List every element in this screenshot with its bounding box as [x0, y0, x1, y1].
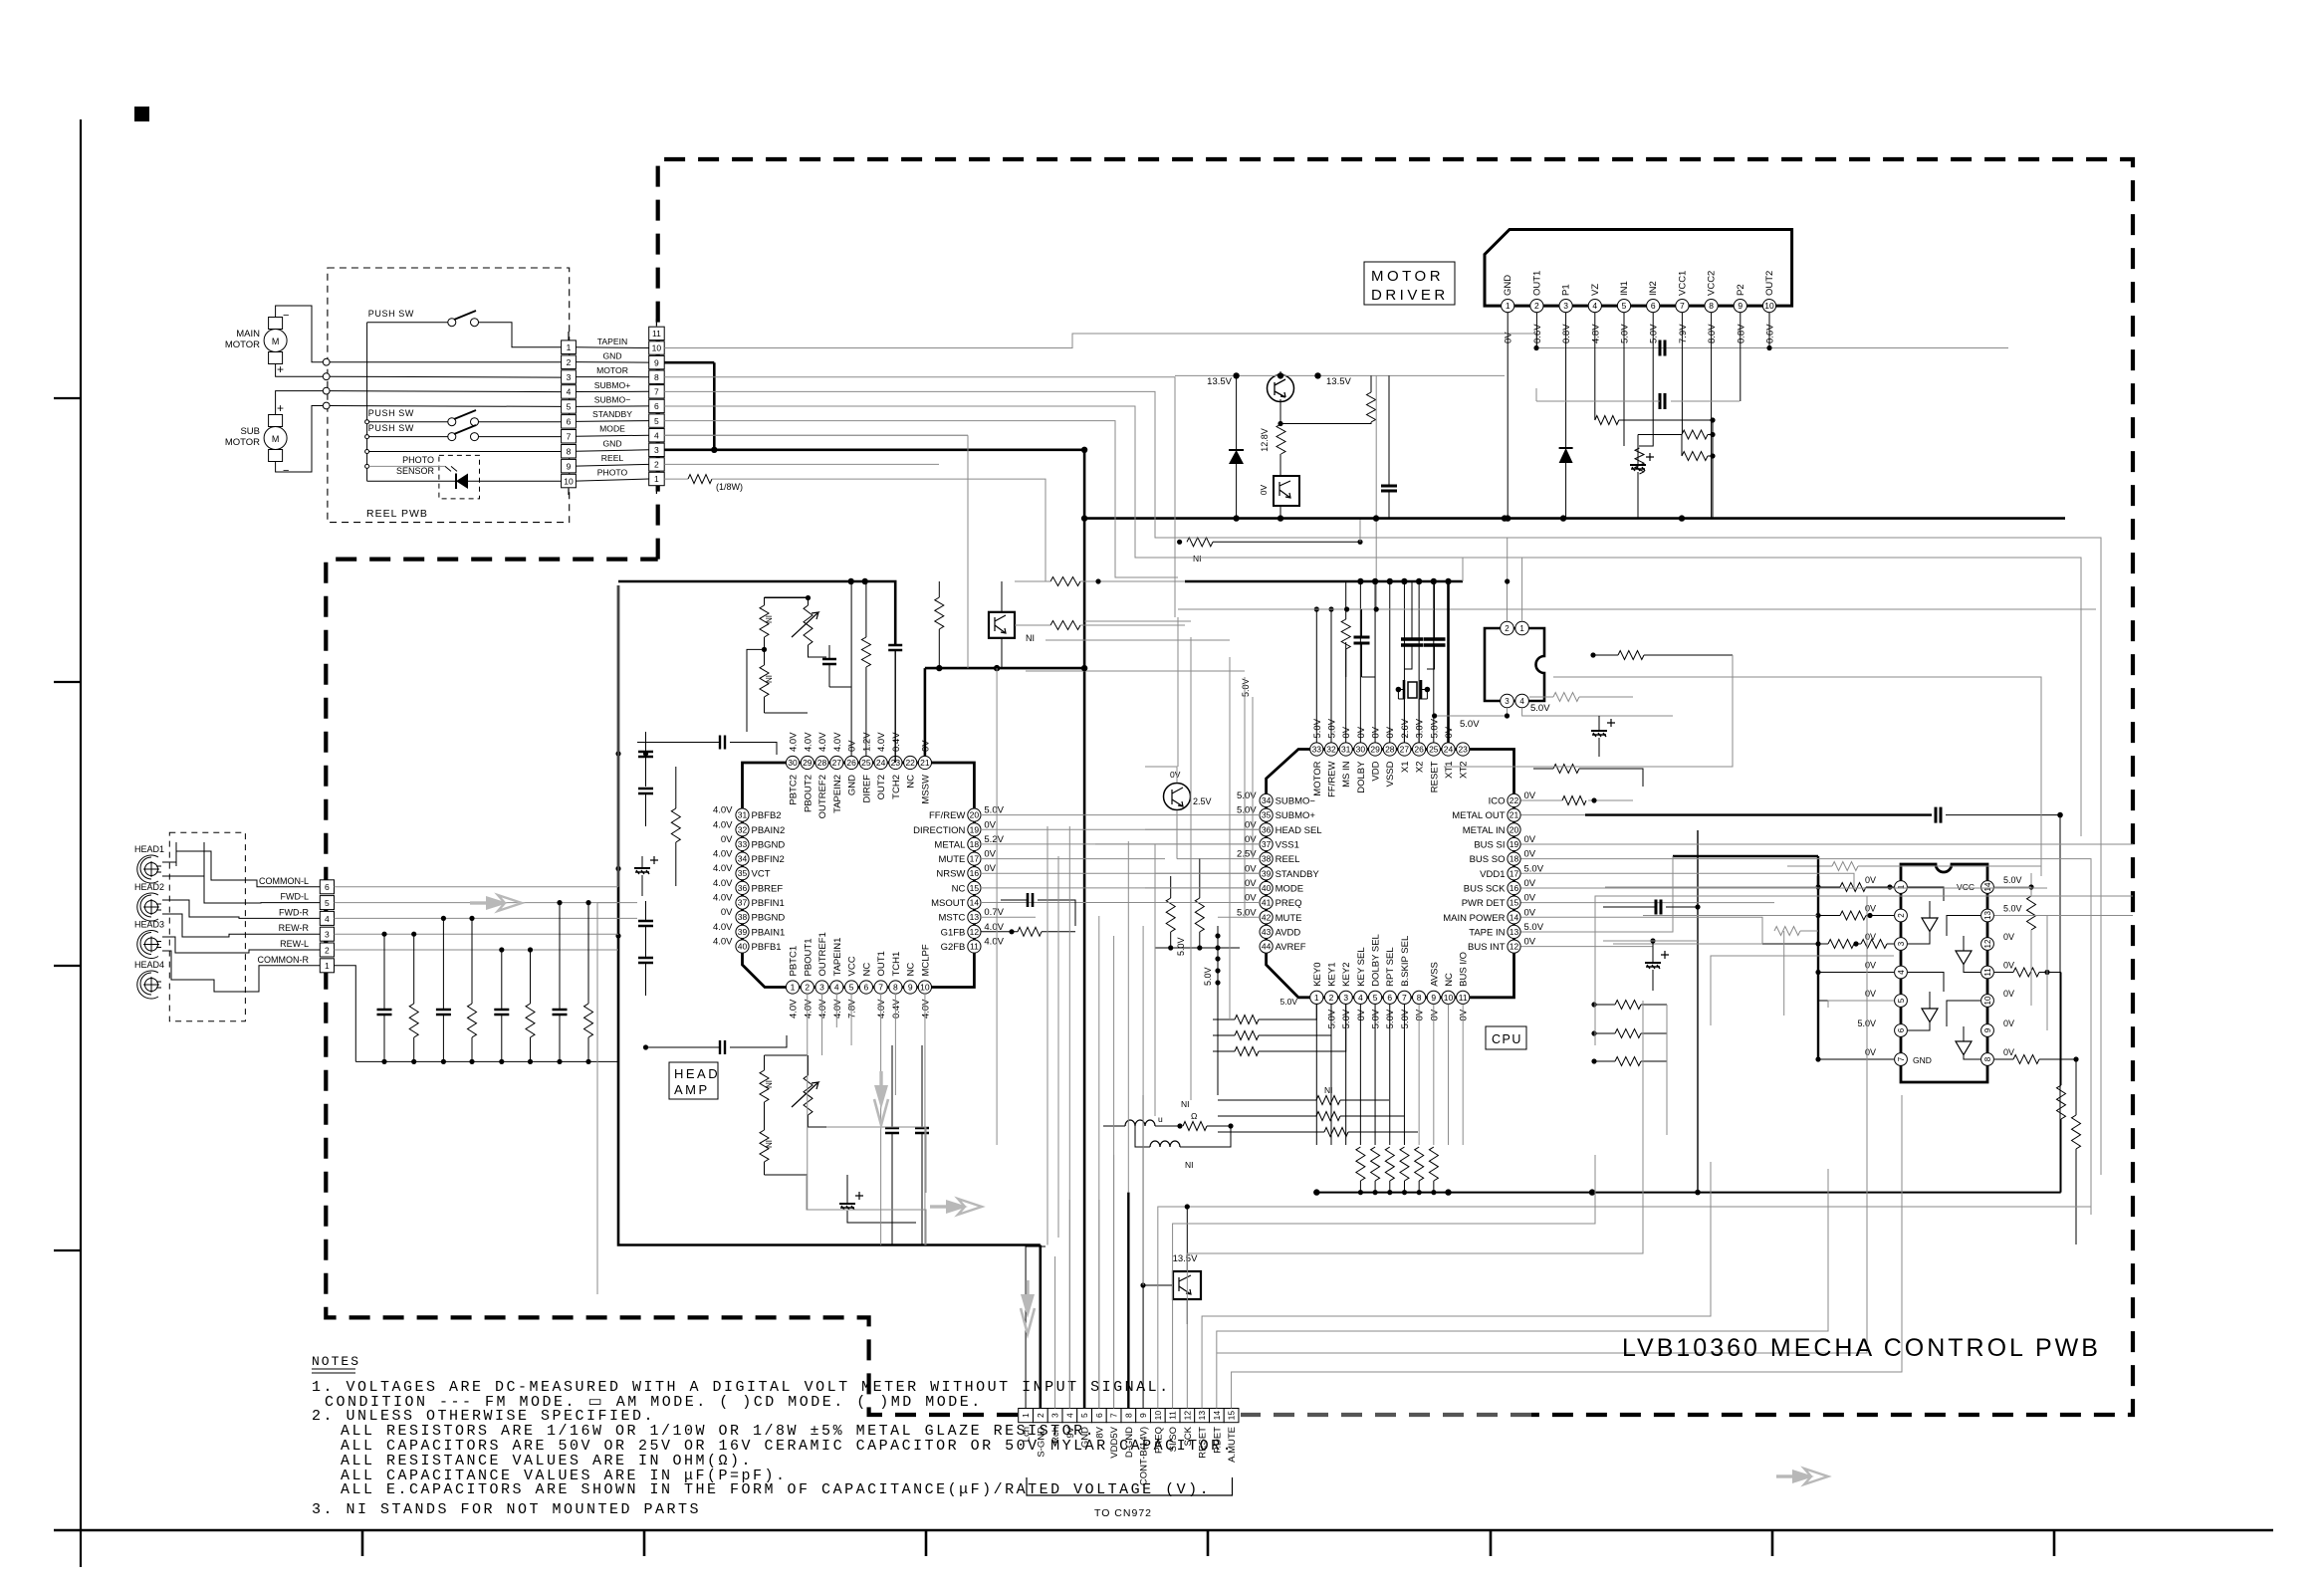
svg-text:0V: 0V	[1170, 770, 1181, 780]
wire head leads	[162, 842, 320, 992]
svg-text:4: 4	[567, 387, 572, 397]
signal flow arrow bottom	[1776, 1469, 1828, 1484]
svg-text:1: 1	[1021, 1413, 1031, 1418]
svg-text:5: 5	[325, 898, 330, 908]
connector CN972 15-pin	[1019, 1409, 1239, 1423]
svg-text:4.0V: 4.0V	[832, 999, 843, 1018]
wire motor lines to connector	[330, 361, 561, 363]
wire left feed bundle	[1817, 876, 1819, 1059]
svg-text:X1: X1	[1400, 762, 1411, 774]
svg-text:u: u	[1158, 1114, 1163, 1124]
svg-text:PUSH SW: PUSH SW	[368, 309, 414, 319]
svg-text:26: 26	[846, 758, 856, 768]
svg-text:1: 1	[1519, 624, 1524, 633]
svg-text:+: +	[277, 362, 284, 376]
wire vertical 1705	[1697, 830, 1699, 1193]
transistor Q (13.5V)	[1207, 375, 1351, 402]
svg-text:NI: NI	[1185, 1160, 1194, 1170]
wire 5V bus over cpu	[1185, 580, 1463, 583]
svg-text:34: 34	[738, 854, 748, 864]
svg-text:NI: NI	[1193, 554, 1202, 564]
cap pbfb1	[720, 1040, 725, 1054]
svg-text:MOTOR: MOTOR	[596, 365, 628, 375]
cap pair upper	[822, 659, 836, 664]
svg-text:9: 9	[908, 983, 913, 993]
svg-text:1: 1	[654, 474, 659, 484]
svg-text:MSTC: MSTC	[938, 913, 965, 924]
svg-text:30: 30	[788, 758, 798, 768]
crystal X1	[1396, 680, 1431, 743]
svg-text:P1: P1	[1561, 284, 1572, 296]
svg-text:0.8V: 0.8V	[1561, 324, 1572, 343]
capacitor C mid	[1381, 486, 1397, 491]
svg-text:VSS1: VSS1	[1276, 840, 1299, 851]
svg-text:MS IN: MS IN	[1341, 761, 1352, 788]
svg-text:PBTC1: PBTC1	[789, 946, 800, 977]
svg-text:BUS I/O: BUS I/O	[1459, 952, 1470, 987]
NI transistor box (near head amp)	[989, 612, 1035, 643]
svg-text:4: 4	[834, 983, 839, 993]
svg-text:REEL: REEL	[1276, 854, 1300, 865]
svg-text:11: 11	[652, 329, 661, 339]
svg-text:5.0V: 5.0V	[2003, 875, 2022, 885]
svg-text:PUSH SW: PUSH SW	[368, 423, 414, 433]
resistor bank below cpu	[1356, 1147, 1439, 1195]
resistor vcc pullups	[2027, 896, 2036, 930]
svg-text:0V: 0V	[847, 740, 858, 752]
svg-text:NRSW: NRSW	[936, 869, 965, 880]
inductor L1	[1103, 1114, 1180, 1126]
svg-text:5.0V: 5.0V	[1237, 791, 1257, 801]
svg-text:OUT1: OUT1	[1531, 271, 1542, 296]
wire photo diode line	[367, 480, 562, 482]
junction dots head amp left	[615, 751, 620, 756]
svg-text:NOTES: NOTES	[312, 1354, 360, 1369]
svg-text:5.0V: 5.0V	[1237, 907, 1257, 918]
svg-text:Ω: Ω	[1191, 1111, 1197, 1121]
wire left long verticals	[597, 585, 618, 1294]
svg-text:20: 20	[970, 810, 980, 820]
svg-text:12: 12	[1983, 939, 1992, 948]
svg-text:28: 28	[817, 758, 827, 768]
cap pbfb2	[720, 736, 725, 750]
node taps	[365, 420, 369, 424]
svg-text:27: 27	[1400, 745, 1410, 755]
svg-text:11: 11	[970, 942, 979, 952]
svg-text:PBTC2: PBTC2	[789, 775, 800, 805]
capacitor/resistor array	[377, 900, 593, 1064]
svg-text:0V: 0V	[1245, 893, 1257, 904]
svg-text:HEAD2: HEAD2	[134, 882, 164, 892]
svg-text:5.0V: 5.0V	[1429, 718, 1440, 738]
svg-text:3: 3	[1563, 301, 1568, 311]
svg-text:PHOTO: PHOTO	[597, 468, 628, 478]
push switch SW1	[368, 309, 479, 327]
svg-text:6: 6	[567, 417, 572, 427]
svg-text:PBFIN1: PBFIN1	[752, 898, 785, 909]
svg-text:27: 27	[832, 758, 842, 768]
svg-text:PBFIN2: PBFIN2	[752, 854, 785, 865]
svg-text:KEY1: KEY1	[1327, 963, 1338, 987]
CPU label box	[1486, 1026, 1526, 1049]
head amp right pins 20-11	[913, 805, 1004, 954]
svg-text:13: 13	[1983, 911, 1992, 920]
wire gnd bus under heads	[355, 1060, 618, 1062]
svg-text:OUTREF1: OUTREF1	[817, 932, 828, 976]
wire mode line	[369, 451, 562, 453]
svg-text:9: 9	[1983, 1027, 1992, 1032]
svg-text:SUBMO+: SUBMO+	[1276, 810, 1316, 821]
svg-text:32: 32	[1326, 745, 1336, 755]
svg-text:IN1: IN1	[1619, 281, 1630, 296]
svg-text:5.0V: 5.0V	[1524, 863, 1544, 874]
HEAD AMP label box	[669, 1062, 720, 1099]
svg-text:+: +	[277, 401, 284, 415]
svg-text:8: 8	[1417, 993, 1422, 1003]
input resistors	[1605, 883, 1894, 1062]
svg-text:NI: NI	[765, 675, 774, 683]
svg-text:B.SKIP SEL: B.SKIP SEL	[1400, 936, 1411, 987]
svg-text:5.0V: 5.0V	[1327, 718, 1338, 738]
wire sub motor leads	[276, 391, 324, 415]
svg-text:4.0V: 4.0V	[713, 893, 733, 904]
ecap below	[839, 1203, 855, 1205]
svg-text:9: 9	[1738, 301, 1743, 311]
svg-text:TAPE IN: TAPE IN	[1469, 927, 1505, 938]
wire 5V feeds	[1994, 887, 2047, 1030]
photo interrupter box	[1259, 476, 1299, 506]
connector 4p top right of cpu	[1460, 621, 1550, 730]
svg-text:13: 13	[1197, 1411, 1207, 1421]
svg-text:0V: 0V	[2003, 989, 2014, 999]
svg-text:AVSS: AVSS	[1429, 962, 1440, 987]
svg-text:19: 19	[1510, 839, 1519, 849]
cap/ecap right of cpu	[1591, 730, 1607, 732]
resistor fb	[1832, 862, 1858, 871]
svg-text:0V: 0V	[2003, 1018, 2014, 1028]
wire b2 photo	[664, 464, 939, 479]
caps left column	[638, 752, 653, 757]
MOTOR DRIVER label box	[1364, 262, 1455, 305]
svg-text:12: 12	[1182, 1411, 1192, 1421]
svg-text:1: 1	[1897, 884, 1906, 889]
wire power bus 13.5V	[1084, 517, 2065, 520]
svg-text:7.9V: 7.9V	[1678, 324, 1689, 343]
svg-text:XT2: XT2	[1459, 762, 1470, 779]
svg-text:HEAD1: HEAD1	[134, 844, 164, 854]
svg-text:REEL: REEL	[601, 453, 624, 463]
resistors pair near driver	[1682, 430, 1708, 439]
svg-text:PBGND: PBGND	[752, 913, 786, 924]
svg-text:8: 8	[893, 983, 898, 993]
svg-text:SUBMO+: SUBMO+	[594, 380, 631, 390]
node motor terminals on reel pwb edge	[323, 358, 330, 365]
svg-text:17: 17	[1510, 868, 1519, 878]
wires top components	[765, 595, 809, 598]
svg-text:0V: 0V	[1524, 791, 1536, 801]
svg-text:1: 1	[567, 342, 572, 352]
wire gnd bus below cpu	[1316, 1192, 2060, 1194]
svg-text:VDD: VDD	[1371, 761, 1382, 781]
svg-text:5: 5	[1897, 998, 1906, 1003]
wire right side risers cpu	[1521, 796, 2134, 1216]
svg-text:TAPEIN: TAPEIN	[597, 337, 627, 346]
wire vertical 2069 to gnd bus	[2059, 815, 2061, 1193]
svg-text:0V: 0V	[1524, 878, 1536, 889]
signal flow arrow left	[470, 895, 522, 911]
svg-text:0V: 0V	[920, 740, 931, 752]
svg-text:OUT2: OUT2	[876, 775, 887, 799]
svg-text:5: 5	[1079, 1413, 1089, 1418]
svg-text:FF/REW: FF/REW	[1327, 761, 1338, 796]
svg-text:0V: 0V	[1524, 893, 1536, 904]
svg-text:0V: 0V	[1245, 863, 1257, 874]
svg-text:(1/8W): (1/8W)	[716, 482, 743, 492]
svg-text:0V: 0V	[721, 907, 733, 918]
svg-text:5: 5	[849, 983, 854, 993]
cpu left pins 34-44	[1237, 791, 1322, 953]
svg-text:0V: 0V	[984, 819, 996, 830]
svg-text:40: 40	[1262, 883, 1272, 893]
svg-text:7: 7	[567, 432, 572, 442]
svg-text:43: 43	[1262, 927, 1272, 937]
svg-text:0V: 0V	[1385, 726, 1396, 738]
svg-text:BUS SCK: BUS SCK	[1464, 884, 1506, 895]
svg-text:HEAD SEL: HEAD SEL	[1276, 825, 1322, 836]
svg-text:6: 6	[1387, 993, 1392, 1003]
wire metal out thick	[1585, 813, 1932, 815]
photo sensor detector diode	[445, 466, 468, 489]
svg-text:GND: GND	[1503, 275, 1513, 296]
svg-text:0.4V: 0.4V	[891, 999, 902, 1018]
svg-text:SUBMO−: SUBMO−	[594, 394, 631, 404]
svg-text:BUS SO: BUS SO	[1470, 854, 1506, 865]
logic IC 14-pin body	[1901, 864, 1987, 1082]
ecap near driver	[1630, 464, 1646, 466]
svg-text:VCC: VCC	[1957, 882, 1975, 892]
trimmer VR upper	[792, 595, 826, 657]
svg-text:38: 38	[1262, 854, 1272, 864]
wire head amp bottom pins down	[808, 994, 851, 1210]
svg-text:14: 14	[1212, 1411, 1222, 1421]
svg-text:2: 2	[567, 357, 572, 367]
REEL PWB board dashed outline	[328, 268, 570, 523]
svg-text:9: 9	[567, 461, 572, 471]
resistor above diref pin	[861, 637, 870, 667]
connector board edge 11-pin	[649, 319, 665, 494]
svg-text:42: 42	[1262, 912, 1272, 922]
svg-text:2: 2	[805, 983, 810, 993]
svg-text:OUT2: OUT2	[1764, 271, 1775, 296]
svg-text:10: 10	[920, 983, 930, 993]
svg-text:COMMON-R: COMMON-R	[258, 955, 310, 965]
svg-text:TCH2: TCH2	[891, 775, 902, 799]
svg-text:2: 2	[1329, 993, 1334, 1003]
svg-text:4: 4	[1592, 301, 1597, 311]
svg-text:8: 8	[1123, 1413, 1133, 1418]
svg-text:TCH1: TCH1	[891, 952, 902, 977]
svg-text:0.6V: 0.6V	[1765, 324, 1776, 343]
svg-text:METAL OUT: METAL OUT	[1452, 810, 1506, 821]
resistor P2 net	[1635, 448, 1644, 474]
svg-text:13.5V: 13.5V	[1207, 376, 1232, 387]
svg-text:0V: 0V	[1429, 1009, 1440, 1020]
svg-text:4.0V: 4.0V	[803, 732, 813, 752]
svg-text:2.5V: 2.5V	[1237, 849, 1257, 860]
svg-text:10: 10	[1153, 1411, 1163, 1421]
svg-text:MOTOR: MOTOR	[225, 437, 260, 448]
svg-text:0V: 0V	[1356, 1009, 1367, 1020]
svg-text:4: 4	[654, 430, 659, 440]
head amp bottom pins 1-10	[786, 932, 931, 1018]
svg-text:RESET: RESET	[1429, 761, 1440, 792]
svg-text:3: 3	[325, 930, 330, 940]
wire thick feed from connector	[664, 448, 1084, 451]
wire middle vertical bundle	[968, 435, 1143, 1408]
svg-text:4.0V: 4.0V	[876, 732, 887, 752]
svg-text:REW-R: REW-R	[279, 923, 310, 933]
svg-text:4: 4	[1064, 1413, 1074, 1418]
svg-text:BUS INT: BUS INT	[1468, 942, 1506, 953]
svg-text:15: 15	[970, 883, 980, 893]
svg-text:37: 37	[738, 898, 748, 908]
svg-text:PUSH SW: PUSH SW	[368, 408, 414, 418]
svg-text:4.0V: 4.0V	[984, 937, 1004, 948]
svg-text:13.5V: 13.5V	[1173, 1253, 1198, 1264]
svg-text:4: 4	[325, 914, 330, 924]
svg-text:METAL IN: METAL IN	[1463, 825, 1506, 836]
svg-text:4.0V: 4.0V	[713, 922, 733, 933]
svg-text:NI: NI	[1181, 1099, 1190, 1109]
svg-text:IN2: IN2	[1648, 281, 1659, 296]
svg-text:MSOUT: MSOUT	[931, 898, 966, 909]
svg-text:2: 2	[1505, 624, 1510, 633]
svg-text:COMMON-L: COMMON-L	[259, 876, 309, 886]
svg-text:9: 9	[1431, 993, 1436, 1003]
svg-text:0.8V: 0.8V	[1736, 324, 1746, 343]
svg-text:0V: 0V	[1245, 878, 1257, 889]
svg-text:4.0V: 4.0V	[920, 999, 931, 1018]
svg-text:−: −	[283, 310, 289, 322]
cpu top pins 33-23	[1310, 718, 1470, 797]
svg-text:3.0V: 3.0V	[1415, 718, 1426, 738]
wire q2 nets	[1145, 767, 1260, 859]
svg-text:0V: 0V	[1341, 726, 1352, 738]
capacitor msout	[1028, 893, 1033, 907]
svg-text:MODE: MODE	[599, 424, 625, 434]
svg-text:M: M	[272, 337, 280, 346]
svg-text:24: 24	[1444, 745, 1454, 755]
svg-text:4.0V: 4.0V	[984, 922, 1004, 933]
svg-text:1: 1	[1314, 993, 1319, 1003]
svg-text:2: 2	[325, 945, 330, 955]
svg-text:6: 6	[864, 983, 869, 993]
sub motor M	[264, 401, 289, 477]
svg-text:11: 11	[1168, 1411, 1178, 1420]
logic IC right pins 14-8	[1957, 875, 2021, 1065]
svg-text:PBFB2: PBFB2	[752, 810, 782, 821]
resistors key inputs	[1213, 1004, 1346, 1056]
caps right mid	[1656, 900, 1661, 915]
svg-text:VDD1: VDD1	[1480, 869, 1505, 880]
resistor left	[671, 808, 680, 842]
resistor out right	[2013, 968, 2039, 977]
svg-text:5.0V: 5.0V	[1341, 1009, 1352, 1028]
svg-text:4.0V: 4.0V	[876, 999, 887, 1018]
svg-text:SUB: SUB	[240, 426, 260, 437]
resistor ni top	[935, 597, 944, 629]
caps xtal pair	[1401, 639, 1423, 645]
svg-text:7: 7	[1680, 301, 1685, 311]
cpu bottom pins 1-11	[1310, 934, 1470, 1028]
svg-text:31: 31	[738, 810, 748, 820]
svg-text:3: 3	[1897, 941, 1906, 946]
svg-text:0V: 0V	[1524, 907, 1536, 918]
svg-text:11: 11	[1983, 968, 1992, 977]
svg-text:14: 14	[970, 898, 980, 908]
resistor NI lower pair	[760, 1055, 808, 1175]
op-amp IC head amp body	[743, 763, 975, 988]
svg-text:P2: P2	[1736, 284, 1746, 296]
svg-text:2: 2	[1534, 301, 1539, 311]
svg-text:NI: NI	[765, 1140, 774, 1148]
inverter gates	[1908, 887, 1980, 1059]
svg-text:5.0V: 5.0V	[1400, 1009, 1411, 1028]
svg-text:KEY SEL: KEY SEL	[1356, 947, 1367, 986]
wire gnd b8	[664, 377, 1507, 617]
svg-text:8.0V: 8.0V	[1707, 324, 1718, 343]
svg-text:PBAIN1: PBAIN1	[752, 927, 786, 938]
resistor above cpu	[1341, 619, 1350, 649]
svg-text:0V: 0V	[2003, 1047, 2014, 1057]
svg-text:31: 31	[1341, 745, 1351, 755]
svg-text:4.0V: 4.0V	[713, 878, 733, 889]
svg-text:6: 6	[325, 882, 330, 892]
svg-text:ICO: ICO	[1489, 796, 1506, 807]
svg-text:METAL: METAL	[934, 839, 965, 850]
svg-text:4.0V: 4.0V	[789, 732, 800, 752]
photo interrupter 13.5V bottom	[1173, 1253, 1201, 1299]
signal flow arrow down2	[1021, 1280, 1035, 1334]
svg-text:33: 33	[1312, 745, 1322, 755]
notes text block	[312, 1354, 1234, 1518]
svg-text:PHOTO: PHOTO	[402, 455, 434, 465]
svg-text:PBFB1: PBFB1	[752, 942, 782, 953]
svg-text:2.5V: 2.5V	[1193, 796, 1212, 806]
svg-text:7: 7	[1109, 1413, 1119, 1418]
svg-text:39: 39	[738, 927, 748, 937]
svg-text:M: M	[272, 434, 280, 444]
svg-text:4.0V: 4.0V	[803, 999, 813, 1018]
svg-text:4.0V: 4.0V	[713, 819, 733, 830]
svg-text:X2: X2	[1415, 762, 1426, 774]
svg-text:0V: 0V	[984, 863, 996, 874]
svg-text:NI: NI	[765, 1080, 774, 1088]
svg-text:MSSW: MSSW	[920, 775, 931, 804]
svg-text:RPT SEL: RPT SEL	[1385, 947, 1396, 986]
svg-text:5.0V: 5.0V	[2003, 904, 2022, 914]
svg-text:PBOUT2: PBOUT2	[803, 775, 813, 812]
svg-text:16: 16	[1510, 883, 1519, 893]
svg-text:2: 2	[654, 460, 659, 470]
svg-text:3: 3	[819, 983, 824, 993]
svg-text:4.0V: 4.0V	[789, 999, 800, 1018]
svg-text:5.0V: 5.0V	[1620, 324, 1631, 343]
svg-text:REEL PWB: REEL PWB	[366, 508, 428, 520]
push switch SW2	[368, 408, 479, 426]
heads dashed box	[169, 832, 245, 1021]
svg-text:MUTE: MUTE	[938, 854, 965, 865]
